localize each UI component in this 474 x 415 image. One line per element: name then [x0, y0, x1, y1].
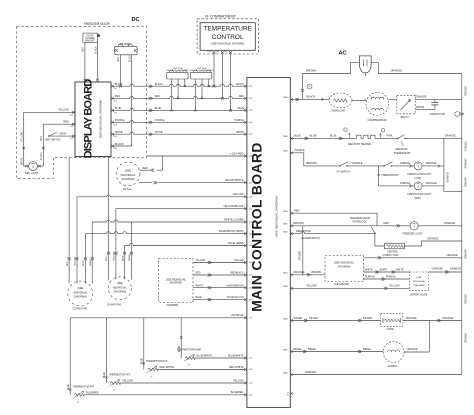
svg-text:J4-8: J4-8 — [249, 299, 253, 301]
svg-text:RED-WHITE: RED-WHITE — [229, 365, 244, 369]
svg-text:BLUE: BLUE — [238, 107, 245, 110]
wire BROWN main board to interlock — [292, 225, 378, 227]
svg-text:PURPLE: PURPLE — [400, 161, 410, 165]
svg-text:WHT (BLU): WHT (BLU) — [204, 70, 214, 72]
svg-text:BLUE (RPM): BLUE (RPM) — [228, 241, 243, 245]
cube heater dashed box — [380, 314, 403, 327]
svg-text:EVAP FAN: EVAP FAN — [108, 302, 121, 306]
FF compartment dashed box — [197, 19, 258, 54]
thermistor F/Z RT3 — [148, 368, 158, 371]
svg-text:WHT (BLU): WHT (BLU) — [191, 70, 201, 72]
svg-text:J3-3: J3-3 — [249, 233, 253, 235]
svg-text:ORANGE: ORANGE — [464, 249, 467, 260]
wire BROWN vertical brown drop — [302, 226, 304, 275]
svg-text:DIAGRAM): DIAGRAM) — [74, 295, 87, 299]
svg-text:J2-3: J2-3 — [70, 138, 73, 140]
FF fan M1 dashed circle — [116, 162, 140, 186]
svg-text:A: A — [309, 85, 311, 89]
wire ORANGE water valve to right bus — [429, 271, 462, 273]
svg-text:BLUE: BLUE — [310, 134, 317, 138]
svg-text:RED/WHITE: RED/WHITE — [296, 229, 311, 233]
svg-text:BLUE: BLUE — [294, 134, 301, 138]
svg-text:YELLOW: YELLOW — [75, 257, 77, 266]
svg-text:WHT (BLU): WHT (BLU) — [167, 70, 177, 72]
wire damper BLUE to main board — [193, 299, 246, 301]
wire block1 drop right to BLACK row — [184, 79, 186, 86]
svg-text:DC: DC — [132, 17, 140, 23]
svg-text:PINK: PINK — [387, 134, 393, 138]
wire BLUE display to main control board — [113, 109, 246, 111]
svg-text:(SEE INDIVIDUAL DIAGRAM): (SEE INDIVIDUAL DIAGRAM) — [275, 196, 279, 237]
svg-text:FRESH FOOD LIGHT: FRESH FOOD LIGHT — [408, 173, 432, 176]
svg-text:RED: RED — [294, 209, 300, 213]
svg-text:J2-2: J2-2 — [249, 98, 253, 100]
wires into COND fan — [68, 261, 70, 283]
svg-text:RED: RED — [239, 95, 244, 98]
svg-text:BLUE/WHITE: BLUE/WHITE — [197, 354, 213, 358]
svg-text:SILVER: SILVER — [363, 316, 372, 320]
wire thermistor F/Z drop BLUE — [143, 318, 145, 370]
wire block1 drop left to BLUE row — [170, 79, 172, 110]
svg-text:TAB 1: TAB 1 — [283, 317, 288, 320]
wire thermistor FF2 drop BLUE — [105, 318, 107, 383]
wire BLACK display to main control board — [113, 84, 246, 86]
svg-text:OVERLOAD: OVERLOAD — [331, 108, 346, 112]
wire temp control pin3 to BLUE row — [230, 54, 232, 110]
wire ORANGE defrost thermostat to right bus — [405, 137, 462, 139]
connector TO WIRE — [115, 46, 138, 55]
wire YELLOW display board left pin to corner — [24, 112, 75, 166]
wire BLUE RPM fan row to main board — [124, 246, 126, 254]
svg-text:WHITE: WHITE — [21, 157, 23, 165]
fresh food light top L1 — [414, 162, 422, 170]
svg-text:YELLOW/BLACK: YELLOW/BLACK — [223, 204, 244, 208]
svg-text:BLUE/RED: BLUE/RED — [86, 390, 99, 394]
wire BLACK main board to overload — [292, 98, 330, 100]
svg-text:TEMPERATURE: TEMPERATURE — [203, 26, 252, 33]
wire block2 drop mid to RED row — [201, 79, 203, 98]
svg-text:WHITE: WHITE — [416, 105, 425, 109]
svg-text:J1-1: J1-1 — [249, 86, 253, 88]
svg-text:ORANGE: ORANGE — [406, 316, 417, 320]
svg-text:ORANGE: ORANGE — [464, 294, 467, 305]
wire temp control pin2 to RED row — [221, 54, 223, 98]
svg-text:PURPLE: PURPLE — [352, 161, 363, 165]
svg-text:BLACK: BLACK — [115, 83, 123, 86]
svg-text:ORANGE: ORANGE — [426, 161, 437, 165]
wire block2 drop right to BLACK row — [208, 79, 210, 86]
wire vertical ORANGE FF lights — [444, 138, 462, 191]
door closed magnet S1 — [83, 33, 98, 42]
svg-text:AUGER: AUGER — [388, 364, 397, 368]
wire temp control pin1 to BLACK row — [213, 54, 215, 86]
svg-text:INTERLOCK: INTERLOCK — [353, 220, 368, 224]
wire thermistor FF1 drop BLUE — [69, 318, 71, 395]
wire BROWN row to FF switch — [304, 165, 340, 167]
svg-text:BLACK: BLACK — [236, 83, 244, 86]
svg-text:BLACK: BLACK — [129, 54, 132, 62]
svg-text:J3-2: J3-2 — [216, 51, 220, 53]
svg-text:(MID): (MID) — [415, 197, 421, 200]
wire WHITE relay to capacitor — [415, 109, 435, 111]
wire +5V BLUE to main board — [70, 317, 245, 319]
svg-text:TAB 1: TAB 1 — [283, 150, 288, 153]
svg-text:(SEE: (SEE — [417, 277, 423, 279]
svg-text:DIAGRAM): DIAGRAM) — [170, 282, 182, 285]
svg-text:J1-1: J1-1 — [249, 208, 253, 210]
svg-text:TAB 1: TAB 1 — [283, 285, 288, 288]
svg-text:BLACK/WHITE: BLACK/WHITE — [226, 178, 244, 182]
svg-text:CAPACITOR: CAPACITOR — [430, 112, 445, 116]
svg-text:J1-1: J1-1 — [114, 88, 117, 90]
svg-text:BLACK: BLACK — [94, 46, 97, 54]
svg-text:YELLOW: YELLOW — [114, 252, 116, 261]
svg-text:TAB 1: TAB 1 — [283, 230, 288, 233]
splice on BROWN drop + circled A — [301, 89, 304, 92]
svg-text:ORANGE: ORANGE — [305, 370, 316, 374]
EVAP fan M3 dashed circle — [108, 277, 131, 300]
svg-text:ORANGE: ORANGE — [444, 221, 455, 225]
svg-text:DEF LIGHT: DEF LIGHT — [25, 171, 39, 175]
wire PURPLE to fresh food light mid — [378, 185, 414, 187]
svg-text:RED/BLACK: RED/BLACK — [230, 272, 243, 275]
connector block 2 WHT(BLU) — [190, 72, 212, 79]
svg-text:J3-3: J3-3 — [249, 369, 253, 371]
svg-text:J2-2: J2-2 — [249, 222, 253, 224]
wire RED/WHITE auger input to interlock — [292, 232, 375, 234]
svg-text:ORANGE: ORANGE — [464, 333, 467, 344]
svg-text:BEIGE: BEIGE — [363, 347, 371, 351]
svg-text:ORANGE: ORANGE — [464, 86, 467, 97]
svg-text:PURPLE: PURPLE — [115, 119, 125, 122]
svg-text:J3-1: J3-1 — [224, 51, 228, 53]
wire YELLOW fan row to main board — [76, 197, 78, 259]
wire GRAY display board left pin to def switch — [48, 135, 75, 137]
svg-text:THERMISTOR FF1: THERMISTOR FF1 — [73, 384, 96, 388]
svg-text:(SEE INDIVIDUAL: (SEE INDIVIDUAL — [334, 262, 355, 265]
svg-text:BLACK: BLACK — [307, 95, 316, 99]
def light L4 — [29, 162, 38, 171]
svg-text:FF SWITCH: FF SWITCH — [337, 170, 351, 174]
thermistor FF2 RT2 — [110, 382, 120, 385]
svg-text:(SEE INDIVIDUAL DIAGRAM): (SEE INDIVIDUAL DIAGRAM) — [211, 43, 244, 46]
svg-text:ORANGE: ORANGE — [294, 270, 305, 274]
svg-text:(AUGER INPUT): (AUGER INPUT) — [301, 236, 320, 240]
svg-text:ORANGE: ORANGE — [445, 172, 448, 183]
svg-text:WHT (BLU): WHT (BLU) — [180, 70, 190, 72]
svg-text:ICE MAKER: ICE MAKER — [334, 282, 349, 286]
svg-text:(SEE: (SEE — [77, 286, 83, 290]
svg-text:RED: RED — [64, 120, 70, 124]
svg-text:BLUE: BLUE — [196, 297, 202, 299]
wire ORANGE check vsd row ice maker to right bus — [364, 257, 462, 259]
FF thermostat S4 — [383, 165, 385, 167]
svg-text:WHITE: WHITE — [379, 268, 387, 271]
svg-text:RELAY: RELAY — [401, 115, 410, 119]
svg-text:J1-5: J1-5 — [114, 136, 117, 138]
svg-text:J1-1: J1-1 — [249, 318, 253, 320]
svg-text:+5V BLUE: +5V BLUE — [231, 313, 244, 317]
ice maker dashed box — [325, 256, 364, 282]
svg-text:ORANGE: ORANGE — [432, 267, 443, 271]
wire PURPLE ice maker to water valve — [364, 278, 410, 280]
wire block2 drop left to BLUE row — [194, 79, 196, 110]
svg-text:J1-5: J1-5 — [249, 395, 253, 397]
wire thermistor EVAP drop BLUE — [180, 318, 182, 358]
svg-text:-t°: -t° — [150, 376, 152, 379]
svg-text:BROWN: BROWN — [299, 251, 301, 260]
damper dashed box — [159, 259, 193, 303]
wire ORANGE from plug to right bus — [371, 63, 462, 74]
capacitor C1 — [434, 99, 436, 102]
wire ORANGE/BROWN main board to ice maker — [292, 274, 326, 276]
wire BLACK from magnet to display board pin — [97, 42, 99, 80]
svg-text:RED: RED — [106, 256, 108, 261]
def switch S6 — [48, 135, 49, 136]
svg-text:BLUE: BLUE — [83, 260, 85, 266]
svg-text:DIAGRAM): DIAGRAM) — [121, 177, 134, 181]
svg-text:THERMISTOR FF2: THERMISTOR FF2 — [109, 373, 132, 377]
svg-text:J1-5: J1-5 — [249, 262, 253, 264]
wire damper RED to main board — [193, 274, 246, 276]
svg-text:DISPLAY BOARD: DISPLAY BOARD — [83, 79, 95, 159]
svg-text:J3-3: J3-3 — [249, 110, 253, 112]
wires into EVAP fan — [107, 256, 109, 280]
wire RED display to main control board — [113, 96, 246, 98]
svg-text:BEIGE: BEIGE — [294, 347, 302, 351]
svg-text:PURPLE: PURPLE — [365, 275, 375, 278]
svg-text:J1-4: J1-4 — [114, 124, 117, 126]
svg-text:PURPLE: PURPLE — [294, 148, 305, 152]
svg-text:-t°: -t° — [188, 364, 190, 367]
svg-text:J4-8: J4-8 — [249, 197, 253, 199]
wire branch +12V to FF fan RED — [157, 156, 163, 170]
svg-text:J3-3: J3-3 — [207, 51, 211, 53]
svg-text:PURPLE: PURPLE — [400, 181, 410, 185]
svg-text:YELLOW: YELLOW — [196, 260, 206, 262]
auger motor M5 dashed circle — [383, 342, 404, 363]
svg-text:J1-3: J1-3 — [114, 112, 117, 114]
svg-text:ORANGE: ORANGE — [391, 69, 403, 73]
fresh food light mid L2 — [414, 182, 422, 190]
svg-text:FF Fan: FF Fan — [123, 187, 132, 191]
wire ORANGE light top to vertical bus — [422, 165, 444, 167]
svg-text:J3-7: J3-7 — [249, 287, 253, 289]
svg-text:ORANGE: ORANGE — [445, 134, 456, 138]
defrost heater R1 — [352, 135, 378, 138]
svg-text:YELLOW: YELLOW — [234, 260, 244, 262]
compressor M4 — [366, 93, 389, 116]
svg-text:-t°: -t° — [113, 389, 115, 392]
svg-text:PURPLE: PURPLE — [155, 119, 165, 122]
wire PINK heater to defrost thermostat — [378, 137, 398, 139]
display board right pins J1-1..J1-6 — [111, 85, 114, 88]
wire SILVER main board to cube — [292, 320, 381, 322]
svg-text:YELLOW: YELLOW — [306, 284, 317, 288]
svg-text:INDIVIDUAL: INDIVIDUAL — [73, 290, 88, 294]
wire RED from TO WIRE down to BLACK row junction — [120, 55, 122, 86]
wire EVAP fan RED drop from display board — [107, 158, 109, 254]
svg-text:ORANGE: ORANGE — [442, 316, 453, 320]
svg-text:YELLOW: YELLOW — [21, 131, 23, 142]
COND fan M2 dashed circle — [68, 281, 93, 306]
svg-text:ORANGE: ORANGE — [427, 237, 438, 241]
water valve dashed box — [410, 272, 429, 291]
svg-text:J2-6: J2-6 — [249, 156, 253, 158]
svg-text:TAB 1: TAB 1 — [283, 348, 288, 351]
svg-text:BLUE/YELLOW: BLUE/YELLOW — [227, 297, 244, 299]
svg-text:BLACK: BLACK — [40, 152, 43, 160]
overload OL1 — [329, 93, 352, 108]
svg-text:(TOP): (TOP) — [415, 177, 422, 180]
wire PURPLE main board corner down — [292, 153, 304, 166]
thermistor FF1 RT1 — [74, 393, 84, 396]
svg-text:YELLOW: YELLOW — [389, 284, 400, 288]
wire BROWN from plug to overload branch — [303, 63, 360, 100]
svg-text:TAB 1: TAB 1 — [283, 135, 288, 138]
FF switch S3 — [339, 165, 341, 167]
circled B annotation — [344, 128, 347, 131]
wire overload to compressor — [352, 99, 366, 101]
wire WHITE ice maker to water valve — [364, 271, 410, 273]
wire compressor to relay — [389, 98, 397, 100]
svg-text:HEATER: HEATER — [388, 249, 398, 253]
svg-text:WHITE: WHITE — [236, 131, 244, 134]
power plug P1 — [359, 56, 371, 73]
wire ORANGE cube-auger vertical — [429, 321, 431, 352]
wire EVAP fan WHITE drop — [130, 222, 132, 254]
svg-text:WHITE: WHITE — [396, 268, 404, 271]
svg-text:TAB 1: TAB 1 — [283, 223, 288, 226]
svg-text:WHITE: WHITE — [365, 268, 373, 271]
svg-text:FF COMPARTMENT: FF COMPARTMENT — [205, 14, 236, 18]
wire PURPLE FF switch to junction — [347, 165, 384, 167]
svg-text:RED: RED — [41, 136, 43, 141]
svg-text:WHITE: WHITE — [129, 254, 131, 261]
svg-text:RED: RED — [118, 57, 120, 62]
svg-text:SILVER: SILVER — [294, 316, 303, 320]
wire BLUE/WHITE EVAP row to main board — [195, 357, 246, 359]
circled terminal 1 on right bus — [455, 112, 460, 117]
wire +12V RED to main board — [147, 155, 246, 157]
svg-text:J2-6: J2-6 — [249, 275, 253, 277]
wire PURPLE display to main control board — [113, 120, 246, 122]
wire heater check valve feed — [375, 234, 385, 246]
svg-text:BLUE: BLUE — [155, 107, 162, 110]
svg-text:THERMOSTAT: THERMOSTAT — [394, 151, 412, 155]
wire ORANGE light mid to vertical bus — [422, 185, 444, 187]
svg-text:ORANGE: ORANGE — [447, 253, 458, 257]
svg-text:+ 12V RED: + 12V RED — [230, 151, 244, 155]
wire ORANGE relay to right bus — [415, 98, 462, 100]
svg-text:ORANGE: ORANGE — [416, 95, 427, 99]
wire branch down to mid light — [377, 166, 379, 186]
svg-text:J1-6: J1-6 — [114, 148, 117, 150]
wire YELLOW FF2 row to main board — [120, 382, 246, 384]
svg-text:(CHECK VSD): (CHECK VSD) — [383, 254, 399, 257]
svg-text:WHITE (COMM): WHITE (COMM) — [224, 217, 243, 221]
svg-text:TAB 1: TAB 1 — [283, 371, 288, 374]
svg-text:(SEE: (SEE — [117, 281, 123, 285]
svg-text:FREEZER DOOR: FREEZER DOOR — [84, 22, 110, 26]
svg-text:BLUE/WHITE (RPM): BLUE/WHITE (RPM) — [219, 229, 244, 233]
svg-text:RED: RED — [115, 95, 120, 98]
svg-text:J2-2: J2-2 — [70, 126, 73, 128]
wire COND fan RED drop — [68, 158, 70, 259]
EVAP fan connectors — [107, 252, 110, 256]
svg-text:BLUE: BLUE — [115, 107, 122, 110]
svg-text:PURPLE: PURPLE — [234, 119, 244, 122]
svg-text:TO WIRE: TO WIRE — [120, 42, 131, 46]
wire damper YELLOW to main board — [193, 262, 246, 264]
wire ORANGE auger to vertical — [404, 351, 430, 353]
svg-text:RED: RED — [67, 261, 69, 266]
svg-text:WHITE/BROWN: WHITE/BROWN — [227, 285, 244, 287]
svg-text:ORANGE: ORANGE — [464, 177, 467, 188]
freezer door dashed enclosure — [17, 26, 147, 178]
wire BLUE main board to defrost heater — [292, 137, 352, 139]
svg-text:WHITE: WHITE — [155, 131, 163, 134]
svg-text:ORANGE: ORANGE — [407, 347, 418, 351]
wire RED main board to interlock corner — [292, 213, 378, 226]
svg-text:DEF SWITCH: DEF SWITCH — [45, 138, 60, 141]
svg-text:DAMPER: DAMPER — [167, 303, 179, 307]
svg-text:RED-WHITE: RED-WHITE — [160, 365, 175, 369]
svg-text:J3-7: J3-7 — [249, 182, 253, 184]
display board U2 — [75, 82, 111, 157]
svg-text:DIAGRAM): DIAGRAM) — [114, 290, 127, 294]
svg-text:BROWN: BROWN — [312, 270, 322, 274]
svg-text:RED: RED — [196, 273, 201, 275]
temperature control pins — [213, 51, 216, 54]
svg-text:RED: RED — [83, 47, 85, 52]
svg-text:ORANGE: ORANGE — [426, 181, 437, 185]
svg-text:SILVER: SILVER — [309, 316, 318, 320]
wire RED from magnet to display board pin — [84, 42, 86, 80]
svg-text:INDIVIDUAL: INDIVIDUAL — [113, 285, 128, 289]
svg-text:TAB 1: TAB 1 — [283, 96, 288, 99]
svg-text:PURPLE: PURPLE — [386, 275, 396, 278]
wire BEIGE main board to auger — [292, 351, 384, 353]
svg-text:-t°: -t° — [77, 401, 79, 404]
wire ORANGE cube to right bus — [403, 320, 462, 322]
svg-text:WATER VALVE: WATER VALVE — [410, 293, 428, 297]
circled T annotation — [381, 129, 384, 132]
svg-text:COND FAN: COND FAN — [73, 307, 87, 311]
svg-text:BLACK: BLACK — [115, 142, 124, 146]
svg-text:DIAGRAM): DIAGRAM) — [338, 265, 350, 268]
wire PURPLE to fresh food light top — [392, 165, 415, 167]
wire BLACK from TO WIRE down to display pin J1-6 — [113, 55, 132, 146]
COND fan connectors — [68, 257, 71, 261]
svg-text:DEFROST HEATER: DEFROST HEATER — [348, 142, 371, 146]
svg-text:ORANGE: ORANGE — [464, 142, 467, 153]
svg-text:INDIVIDUAL: INDIVIDUAL — [121, 173, 136, 177]
svg-text:BEIGE: BEIGE — [308, 347, 316, 351]
wire BLUE/WHITE RPM fan row to main board — [84, 234, 86, 259]
svg-text:GRAY: GRAY — [60, 132, 67, 136]
svg-text:WHITE: WHITE — [196, 285, 204, 287]
svg-text:RED: RED — [155, 95, 160, 98]
svg-text:RED: RED — [384, 221, 390, 225]
svg-text:THERMISTOR F/Z: THERMISTOR F/Z — [146, 359, 168, 363]
wire block1 drop mid to RED row — [177, 79, 179, 98]
svg-text:BROWN: BROWN — [306, 69, 316, 73]
thermistor EVAP RT4 — [185, 357, 195, 360]
svg-text:J1-5: J1-5 — [249, 134, 253, 136]
wire FF fan BLACK/WHITE to main board — [139, 182, 152, 184]
defrost thermostat S2 — [397, 138, 399, 140]
